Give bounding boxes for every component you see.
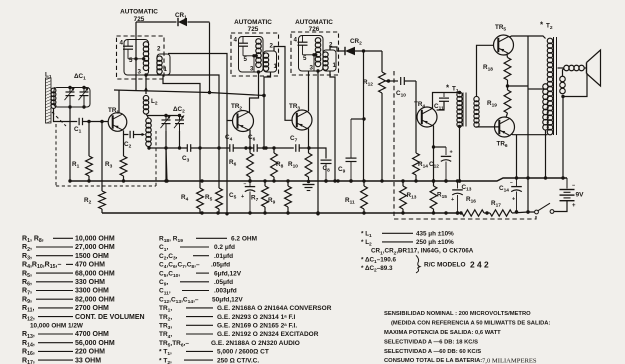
capacitor C13 (electrolytic) xyxy=(451,179,472,214)
wire xyxy=(526,37,529,214)
wire IFT3 pin3 down xyxy=(316,71,319,216)
svg-text:R/C MODELO: R/C MODELO xyxy=(424,261,466,268)
wire xyxy=(164,131,167,183)
capacitor C10 xyxy=(387,77,406,99)
svg-text:* T2,: * T2, xyxy=(159,357,172,364)
wire T2 centre tap xyxy=(528,88,544,90)
svg-text:1500 OHM: 1500 OHM xyxy=(75,253,109,260)
wire xyxy=(484,211,490,214)
resistor R13 xyxy=(400,181,417,213)
svg-text:G.E. 2N168A O 2N164A CONVERSO: G.E. 2N168A O 2N164A CONVERSOR xyxy=(217,305,332,312)
svg-text:435 μh ±10%: 435 μh ±10% xyxy=(416,231,454,238)
wire IFT1 pin3 to L2 xyxy=(144,75,148,94)
svg-text:+: + xyxy=(241,194,244,200)
svg-text:6μfd,12V: 6μfd,12V xyxy=(214,270,242,277)
printed-circuit boundary (dashed) xyxy=(394,71,536,219)
svg-text:1: 1 xyxy=(164,66,168,73)
svg-text:DR117, IN64G, O CK706A: DR117, IN64G, O CK706A xyxy=(398,248,474,255)
resistor R16 xyxy=(459,196,484,216)
svg-text:9V: 9V xyxy=(576,192,585,199)
wire speaker return xyxy=(561,97,564,180)
wire TR5 emitter xyxy=(506,54,509,58)
parts list column 2 (capacitors / transistors) xyxy=(159,236,332,364)
wire T2 secondary return xyxy=(544,130,547,180)
mechanical gang link (dashed) xyxy=(52,112,156,186)
svg-text:4: 4 xyxy=(234,37,238,44)
svg-text:G.E. 2N169 O 2N165 2ᵃ F.I.: G.E. 2N169 O 2N165 2ᵃ F.I. xyxy=(217,323,297,330)
diode CR1 xyxy=(175,12,187,26)
wire TR2 bias divider xyxy=(225,121,228,216)
potentiometer R12 (CONT. DE VOLUMEN) xyxy=(363,51,398,181)
svg-text:1: 1 xyxy=(333,62,337,69)
svg-text:10,000 OHM 1/2W: 10,000 OHM 1/2W xyxy=(30,323,84,330)
resistor R7 xyxy=(251,181,268,213)
svg-text:SELECTIVIDAD A —6 DB: 18 KC/S: SELECTIVIDAD A —6 DB: 18 KC/S xyxy=(384,340,478,346)
wire xyxy=(188,21,210,23)
resistor R6 xyxy=(229,146,253,182)
svg-text:+: + xyxy=(512,197,515,203)
wire xyxy=(147,146,187,149)
transformer T2 xyxy=(540,21,557,136)
parts list column 1 (resistors) xyxy=(22,236,145,364)
transformer T1 xyxy=(446,84,479,128)
ground bus xyxy=(68,178,567,183)
svg-text:3: 3 xyxy=(138,69,142,76)
svg-text:7,0 MILIAMPERES: 7,0 MILIAMPERES xyxy=(482,358,537,364)
svg-text:AUTOMATIC: AUTOMATIC xyxy=(234,19,272,26)
IF transformer 'AUTOMATIC 725' (2nd) xyxy=(231,19,279,76)
svg-text:470 OHM: 470 OHM xyxy=(75,262,105,269)
svg-text:−: − xyxy=(572,183,575,189)
wire xyxy=(166,148,167,181)
transistor TR1 xyxy=(108,107,127,131)
svg-text:0.2 μfd: 0.2 μfd xyxy=(214,244,235,251)
capacitor C3 xyxy=(182,144,191,163)
svg-text:56,000 OHM: 56,000 OHM xyxy=(75,340,115,347)
ferrite antenna coil L1 xyxy=(45,72,56,124)
svg-text:MAXIMA POTENCIA DE SALIDA: 0,6: MAXIMA POTENCIA DE SALIDA: 0,6 WATT xyxy=(384,330,501,336)
wire bias to output tap xyxy=(508,85,529,87)
wire TR1 collector xyxy=(118,90,120,113)
wire TR4 emitter xyxy=(432,125,435,182)
svg-text:AUTOMATIC: AUTOMATIC xyxy=(295,19,333,26)
wire IFT2 pin1 xyxy=(262,72,270,150)
wire xyxy=(515,135,518,180)
svg-text:G.E. 2N293 O 2N314 1ᵃ F.I: G.E. 2N293 O 2N314 1ᵃ F.I xyxy=(217,314,296,321)
svg-text:(MEDIDA CON REFERENCIA A 50 MI: (MEDIDA CON REFERENCIA A 50 MILIWATTS DE… xyxy=(391,321,550,327)
wire IFT3 pin2 to CR2 xyxy=(330,47,345,51)
transistor TR6 xyxy=(495,117,515,149)
svg-text:4: 4 xyxy=(294,37,298,44)
svg-text:5: 5 xyxy=(244,56,248,63)
svg-text:6.2 OHM: 6.2 OHM xyxy=(231,236,257,243)
wire ΔC1 return to bus xyxy=(69,107,71,181)
resistor R19 xyxy=(487,90,511,117)
resistor R9 xyxy=(268,181,291,213)
resistor R5 xyxy=(205,148,222,214)
svg-text:330 OHM: 330 OHM xyxy=(75,279,105,286)
svg-text:CONT. DE VOLUMEN: CONT. DE VOLUMEN xyxy=(75,314,145,321)
resistor R4 xyxy=(181,148,203,214)
specifications text xyxy=(384,311,550,364)
resistor R2 xyxy=(84,122,105,214)
variable capacitor ΔC2 xyxy=(161,106,186,131)
wire IFT2 pin2 to TR3 base xyxy=(274,47,293,121)
battery rail xyxy=(102,211,462,214)
svg-text:2: 2 xyxy=(157,46,161,53)
resistor R14 xyxy=(413,153,429,181)
svg-text:+: + xyxy=(450,150,453,156)
svg-text:SENSIBILIDAD NOMINAL : 200 MIC: SENSIBILIDAD NOMINAL : 200 MICROVOLTS/ME… xyxy=(384,311,531,317)
wire TR1 emitter xyxy=(124,130,129,134)
wire T1 sec to TR5 xyxy=(477,45,494,97)
transistor TR4 xyxy=(414,101,437,127)
wire IFT1 pin3 rail xyxy=(146,75,219,148)
variable capacitor ΔC1 xyxy=(54,73,90,109)
wire xyxy=(351,117,366,120)
svg-text:.05μfd: .05μfd xyxy=(214,279,233,286)
svg-text:5,000 / 2600Ω CT: 5,000 / 2600Ω CT xyxy=(217,349,269,356)
capacitor C2 xyxy=(124,131,134,150)
resistor R1 xyxy=(72,122,92,182)
wire xyxy=(178,131,181,150)
svg-text:27,000 OHM: 27,000 OHM xyxy=(75,244,115,251)
svg-text:SELECTIVIDAD A —60 DB: 60 KC/: SELECTIVIDAD A —60 DB: 60 KC/S xyxy=(384,349,481,355)
capacitor C1 xyxy=(74,118,83,135)
wire TR5 collector xyxy=(509,36,545,39)
oscillator coil L2 xyxy=(143,95,158,148)
svg-text:250 μh ±10%: 250 μh ±10% xyxy=(416,239,454,246)
svg-text:.003μfd: .003μfd xyxy=(214,288,237,295)
svg-text:5: 5 xyxy=(129,57,133,64)
wire TR3 collector xyxy=(308,71,310,111)
wire xyxy=(147,114,181,117)
wire xyxy=(363,51,365,119)
svg-text:+: + xyxy=(451,197,454,203)
parts list column 3 (coils / diodes / model) xyxy=(361,231,489,274)
svg-text:2: 2 xyxy=(270,43,274,50)
wire T1 primary return xyxy=(458,125,461,183)
wire xyxy=(191,146,230,149)
capacitor C9 xyxy=(338,119,357,183)
transistor TR5 xyxy=(494,24,514,55)
svg-text:3: 3 xyxy=(250,66,254,73)
capacitor C8 xyxy=(321,160,332,183)
capacitor C6 xyxy=(248,134,257,152)
wire IFT2 pin3 to TR2 collector xyxy=(250,72,259,113)
battery 9V xyxy=(554,178,584,212)
wire xyxy=(434,146,447,148)
svg-text:5: 5 xyxy=(303,55,307,62)
svg-text:33 OHM: 33 OHM xyxy=(75,357,101,364)
svg-text:725: 725 xyxy=(248,26,259,33)
wire xyxy=(233,146,254,149)
svg-text:220 OHM: 220 OHM xyxy=(75,349,105,356)
wire TR4 collector xyxy=(433,91,462,109)
wire TR3 emitter xyxy=(308,128,310,148)
wire xyxy=(416,116,417,118)
svg-text:−: − xyxy=(244,182,247,188)
resistor R18 xyxy=(483,58,511,91)
svg-text:2 4 2: 2 4 2 xyxy=(470,259,489,269)
ground xyxy=(303,180,315,191)
svg-text:4: 4 xyxy=(120,40,124,47)
wire collector rail xyxy=(114,90,266,97)
capacitor C11 xyxy=(434,93,449,112)
IF transformer 'AUTOMATIC 726' xyxy=(291,19,339,75)
switch xyxy=(535,203,554,214)
resistor R10 xyxy=(288,148,312,182)
transistor TR3 xyxy=(289,103,312,130)
svg-text:AUTOMATIC: AUTOMATIC xyxy=(120,9,158,16)
wire TR2 emitter xyxy=(249,130,251,153)
wire CR1 branch xyxy=(208,23,211,95)
IF transformer T 'AUTOMATIC 725' (1st) xyxy=(117,9,171,80)
svg-text:10,000 OHM: 10,000 OHM xyxy=(75,236,115,243)
capacitor C4 xyxy=(225,134,233,152)
wire into IFT1 primary xyxy=(135,22,137,91)
wire xyxy=(299,146,326,158)
transistor TR2 xyxy=(231,103,254,132)
wire xyxy=(404,80,416,82)
svg-text:3300 OHM: 3300 OHM xyxy=(75,288,109,295)
capacitor C14 (electrolytic) xyxy=(499,178,522,214)
capacitor C12 (electrolytic) xyxy=(429,147,453,183)
capacitor C7 xyxy=(290,135,299,152)
wire xyxy=(136,21,177,23)
svg-text:4700 OHM: 4700 OHM xyxy=(75,331,109,338)
wire xyxy=(54,88,56,89)
svg-text:3: 3 xyxy=(310,65,314,72)
svg-text:.05μfd: .05μfd xyxy=(211,262,230,269)
wire TR4 base/bias xyxy=(415,81,417,153)
wire TR6 emitter xyxy=(511,133,548,136)
diode CR2 xyxy=(345,38,362,55)
wire xyxy=(134,133,146,136)
wire xyxy=(512,210,535,213)
svg-text:50μfd,12V: 50μfd,12V xyxy=(212,296,243,303)
svg-text:2700 OHM: 2700 OHM xyxy=(75,305,109,312)
wire IFT3 pin1 xyxy=(330,71,335,181)
resistor R15 xyxy=(430,181,447,213)
resistor R17 xyxy=(490,200,512,216)
svg-text:82,000 OHM: 82,000 OHM xyxy=(75,296,115,303)
wire xyxy=(83,120,109,123)
resistor R3 xyxy=(105,135,127,182)
wire IFT1 pin2 to TR2 base xyxy=(168,54,233,121)
svg-text:+: + xyxy=(572,203,576,209)
svg-text:.01μfd: .01μfd xyxy=(214,253,233,260)
svg-text:1: 1 xyxy=(274,63,278,70)
wire IFT1 pin1 xyxy=(163,75,200,148)
wire xyxy=(363,119,365,181)
resistor R11 xyxy=(345,181,367,213)
svg-text:250 Ω CT/V.C.: 250 Ω CT/V.C. xyxy=(217,357,259,364)
capacitor C5 (electrolytic) xyxy=(229,181,255,213)
svg-text:CONSUMO TOTAL DE LA BATERIA:: CONSUMO TOTAL DE LA BATERIA: xyxy=(384,358,482,364)
svg-text:G.E. 2N188A O 2N320 AUDIO: G.E. 2N188A O 2N320 AUDIO xyxy=(211,340,300,347)
svg-text:G.E. 2N192 O 2N324 EXCITADOR: G.E. 2N192 O 2N324 EXCITADOR xyxy=(217,331,319,338)
wire xyxy=(257,146,294,149)
resistor R8 xyxy=(271,148,284,181)
svg-text:−: − xyxy=(510,180,513,186)
svg-text:726: 726 xyxy=(309,26,320,33)
svg-text:68,000 OHM: 68,000 OHM xyxy=(75,270,115,277)
loudspeaker xyxy=(558,50,601,98)
wire T1 sec to TR6 xyxy=(477,126,500,128)
wire xyxy=(355,49,382,52)
wire xyxy=(54,108,78,122)
